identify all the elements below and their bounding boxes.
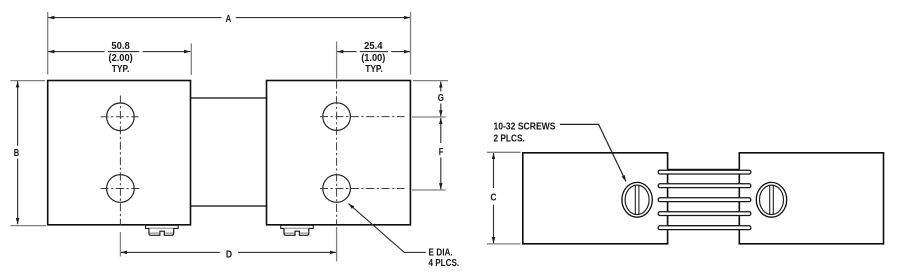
svg-text:10-32 SCREWS: 10-32 SCREWS <box>494 122 556 133</box>
svg-text:C: C <box>491 193 497 204</box>
svg-text:B: B <box>14 148 19 159</box>
svg-text:TYP.: TYP. <box>112 64 130 75</box>
svg-text:50.8: 50.8 <box>111 41 130 52</box>
svg-text:A: A <box>226 14 232 25</box>
svg-text:25.4: 25.4 <box>364 41 383 52</box>
svg-text:D: D <box>226 249 232 260</box>
svg-text:(1.00): (1.00) <box>361 53 385 64</box>
svg-text:F: F <box>439 147 444 158</box>
svg-text:4 PLCS.: 4 PLCS. <box>429 258 460 269</box>
svg-text:2 PLCS.: 2 PLCS. <box>494 134 525 145</box>
svg-text:E DIA.: E DIA. <box>429 247 453 258</box>
svg-text:G: G <box>438 93 444 104</box>
svg-text:TYP.: TYP. <box>365 64 383 75</box>
svg-text:(2.00): (2.00) <box>109 53 133 64</box>
